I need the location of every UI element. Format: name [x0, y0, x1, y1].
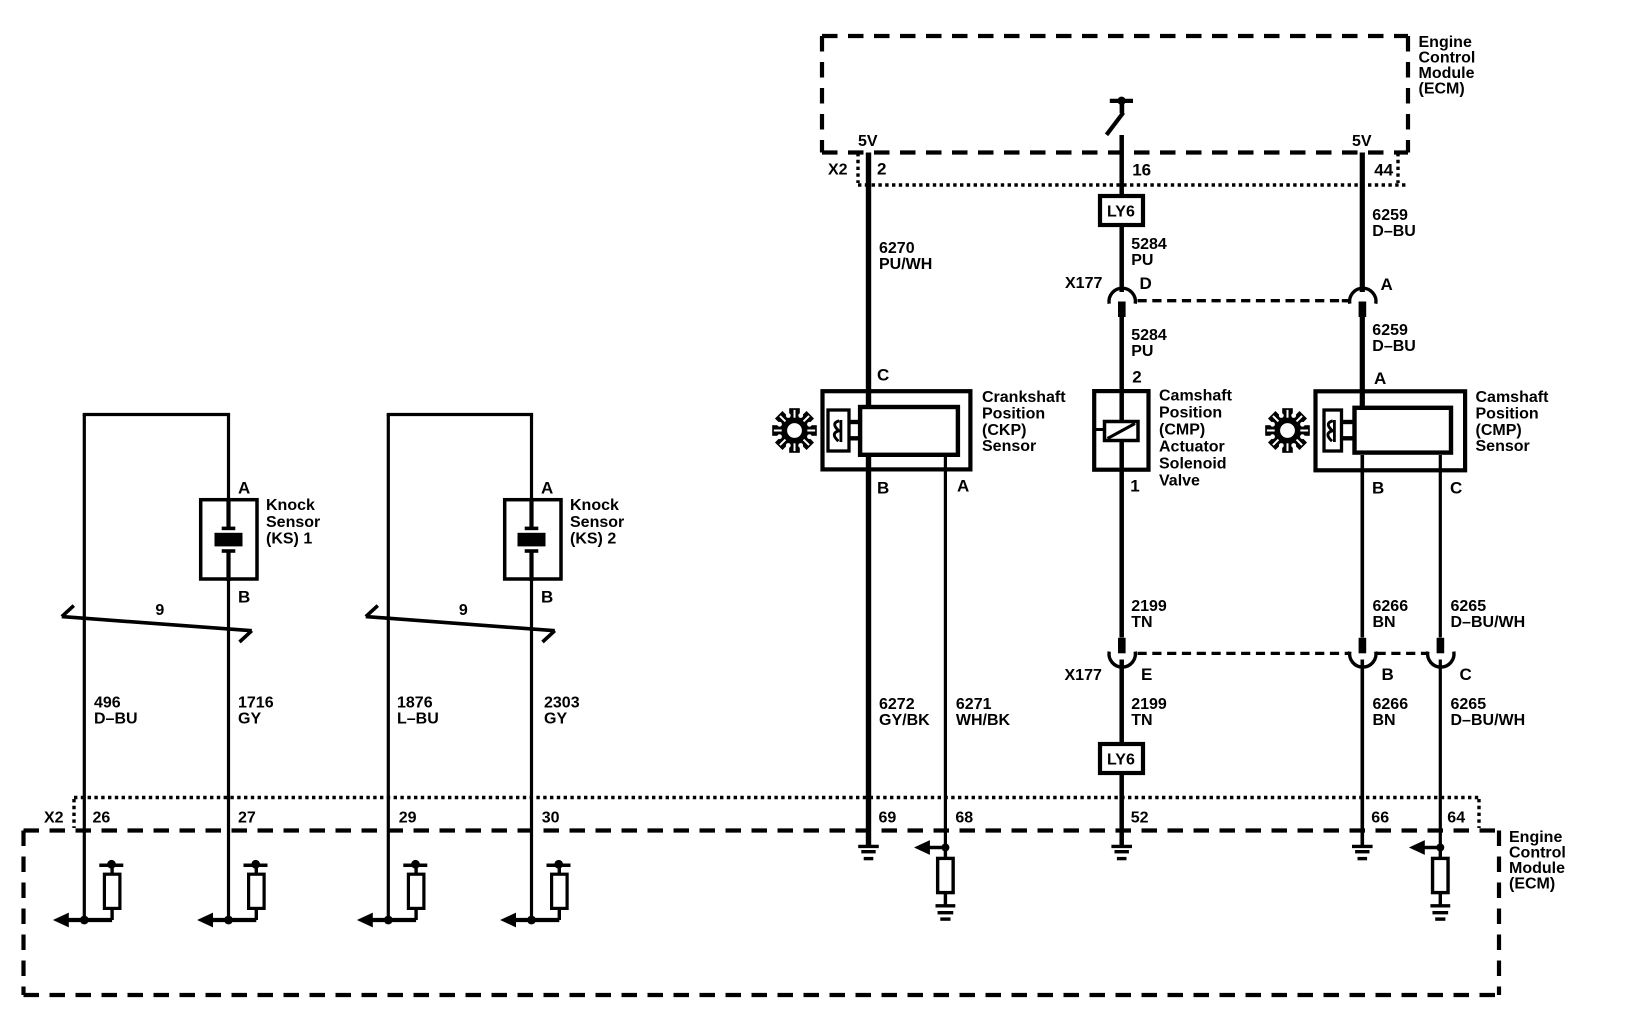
svg-text:29: 29: [399, 810, 417, 827]
svg-text:Module: Module: [1509, 860, 1565, 877]
svg-text:9: 9: [155, 602, 164, 619]
svg-text:Sensor: Sensor: [570, 514, 624, 531]
svg-text:PU: PU: [1131, 343, 1153, 360]
svg-text:2199: 2199: [1131, 598, 1167, 615]
svg-text:LY6: LY6: [1107, 204, 1135, 221]
svg-text:D–BU: D–BU: [94, 711, 138, 728]
svg-text:2303: 2303: [544, 695, 580, 712]
svg-text:B: B: [1382, 665, 1394, 684]
svg-text:L–BU: L–BU: [397, 711, 439, 728]
svg-text:496: 496: [94, 695, 121, 712]
svg-text:6266: 6266: [1373, 598, 1409, 615]
svg-text:Actuator: Actuator: [1159, 439, 1225, 456]
svg-text:30: 30: [542, 810, 560, 827]
svg-text:D–BU: D–BU: [1372, 338, 1416, 355]
svg-text:E: E: [1141, 665, 1152, 684]
svg-text:C: C: [877, 366, 889, 385]
svg-text:A: A: [1381, 275, 1393, 294]
svg-text:6270: 6270: [879, 240, 915, 257]
svg-text:Control: Control: [1509, 845, 1566, 862]
svg-text:(ECM): (ECM): [1419, 81, 1465, 98]
svg-text:WH/BK: WH/BK: [956, 712, 1011, 729]
svg-text:Knock: Knock: [266, 497, 315, 514]
svg-text:A: A: [541, 479, 553, 498]
svg-text:(CKP): (CKP): [982, 422, 1026, 439]
svg-text:6271: 6271: [956, 696, 992, 713]
svg-text:B: B: [541, 588, 553, 607]
svg-text:52: 52: [1131, 810, 1149, 827]
svg-text:BN: BN: [1373, 712, 1396, 729]
svg-text:9: 9: [459, 602, 468, 619]
svg-text:26: 26: [93, 810, 111, 827]
svg-text:B: B: [877, 479, 889, 498]
svg-text:Sensor: Sensor: [266, 514, 320, 531]
svg-text:Engine: Engine: [1419, 34, 1472, 51]
svg-text:Control: Control: [1419, 50, 1476, 67]
svg-text:D–BU: D–BU: [1372, 223, 1416, 240]
svg-text:B: B: [1372, 479, 1384, 498]
svg-text:D–BU/WH: D–BU/WH: [1451, 614, 1526, 631]
svg-text:(CMP): (CMP): [1476, 422, 1522, 439]
svg-text:X2: X2: [828, 162, 848, 179]
svg-text:Position: Position: [1159, 405, 1222, 422]
svg-text:GY: GY: [238, 711, 261, 728]
svg-text:X177: X177: [1065, 667, 1102, 684]
svg-text:68: 68: [955, 810, 973, 827]
svg-text:Camshaft: Camshaft: [1159, 388, 1233, 405]
svg-text:6265: 6265: [1451, 696, 1487, 713]
svg-text:GY/BK: GY/BK: [879, 712, 930, 729]
svg-text:16: 16: [1132, 161, 1151, 180]
svg-text:6266: 6266: [1373, 696, 1409, 713]
svg-text:44: 44: [1374, 161, 1393, 180]
svg-text:PU/WH: PU/WH: [879, 256, 932, 273]
svg-text:(KS) 2: (KS) 2: [570, 531, 616, 548]
svg-text:Engine: Engine: [1509, 829, 1562, 846]
svg-text:(ECM): (ECM): [1509, 876, 1555, 893]
svg-text:5V: 5V: [1352, 133, 1372, 150]
svg-text:6265: 6265: [1451, 598, 1487, 615]
svg-text:X177: X177: [1065, 275, 1102, 292]
svg-text:D–BU/WH: D–BU/WH: [1451, 712, 1526, 729]
svg-text:Camshaft: Camshaft: [1476, 389, 1550, 406]
svg-text:Valve: Valve: [1159, 473, 1200, 490]
svg-text:6259: 6259: [1372, 207, 1408, 224]
svg-text:Sensor: Sensor: [1476, 438, 1530, 455]
svg-text:Crankshaft: Crankshaft: [982, 389, 1066, 406]
svg-text:C: C: [1460, 665, 1472, 684]
svg-text:Position: Position: [982, 405, 1045, 422]
svg-text:Position: Position: [1476, 405, 1539, 422]
svg-text:TN: TN: [1131, 614, 1152, 631]
svg-text:Module: Module: [1419, 65, 1475, 82]
svg-text:LY6: LY6: [1107, 752, 1135, 769]
svg-text:Knock: Knock: [570, 497, 619, 514]
svg-text:64: 64: [1447, 810, 1465, 827]
svg-text:(CMP): (CMP): [1159, 422, 1205, 439]
svg-text:5V: 5V: [858, 133, 878, 150]
svg-text:66: 66: [1371, 810, 1389, 827]
svg-text:1876: 1876: [397, 695, 433, 712]
svg-text:2199: 2199: [1131, 696, 1167, 713]
svg-text:1: 1: [1130, 477, 1139, 496]
svg-text:6259: 6259: [1372, 322, 1408, 339]
svg-text:A: A: [1374, 369, 1386, 388]
svg-text:2: 2: [1132, 368, 1141, 387]
svg-text:D: D: [1140, 274, 1152, 293]
svg-text:B: B: [238, 588, 250, 607]
svg-text:X2: X2: [44, 810, 64, 827]
svg-text:5284: 5284: [1131, 236, 1167, 253]
svg-text:BN: BN: [1373, 614, 1396, 631]
svg-text:69: 69: [879, 810, 897, 827]
svg-text:C: C: [1450, 479, 1462, 498]
svg-text:1716: 1716: [238, 695, 274, 712]
svg-text:PU: PU: [1131, 252, 1153, 269]
svg-text:5284: 5284: [1131, 327, 1167, 344]
svg-text:(KS) 1: (KS) 1: [266, 531, 312, 548]
svg-text:GY: GY: [544, 711, 567, 728]
svg-text:Solenoid: Solenoid: [1159, 456, 1227, 473]
svg-text:Sensor: Sensor: [982, 438, 1036, 455]
svg-text:TN: TN: [1131, 712, 1152, 729]
svg-text:A: A: [957, 477, 969, 496]
svg-text:A: A: [238, 479, 250, 498]
svg-text:6272: 6272: [879, 696, 915, 713]
svg-text:2: 2: [877, 160, 886, 179]
svg-text:27: 27: [238, 810, 256, 827]
